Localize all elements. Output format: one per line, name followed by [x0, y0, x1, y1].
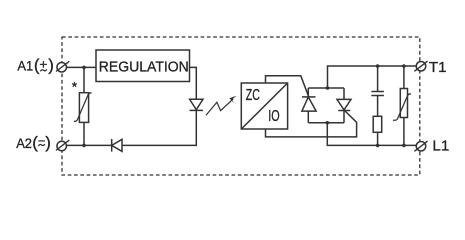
diode D1: [112, 139, 122, 152]
junction node top bus: [326, 86, 330, 90]
wire regulation to LED: [190, 67, 197, 99]
junction node varistor RV2 top: [402, 64, 406, 68]
tilde of A2: [38, 144, 45, 146]
svg-text:(: (: [32, 133, 38, 152]
optocoupler light arrow: [206, 96, 237, 115]
terminal T1: [414, 61, 427, 71]
capacitor C1: [371, 66, 384, 116]
junction node bottom bus: [326, 121, 330, 125]
wire thyristor bottom bus: [308, 122, 344, 124]
dashed enclosure: [62, 37, 420, 175]
ZC/IO block U2: [241, 83, 287, 129]
wire ZC top to thyristor Q1 gate: [266, 76, 309, 97]
resistor R1: [373, 116, 382, 145]
wire thyristor top bus: [308, 87, 344, 89]
terminal A1: [56, 61, 69, 72]
plus sign of A1: [40, 61, 47, 68]
wire junction to varistor RV1: [83, 67, 85, 92]
wire ZC bottom to thyristor Q2 gate: [266, 111, 357, 137]
junction node varistor RV2 bottom: [402, 144, 406, 148]
varistor RV1: [74, 93, 92, 123]
svg-text:L1: L1: [432, 137, 449, 154]
svg-text:REGULATION: REGULATION: [99, 59, 189, 76]
label A1(+~): [17, 56, 53, 75]
svg-text:A2: A2: [16, 135, 32, 151]
svg-text:*: *: [72, 78, 78, 94]
tilde of A1: [40, 69, 47, 71]
terminal A2: [56, 140, 69, 151]
svg-text:(: (: [34, 56, 40, 75]
wire A1 terminal to regulation box: [67, 66, 96, 68]
svg-text:): ): [45, 133, 51, 152]
junction node A1/varistor: [82, 66, 86, 70]
LED D2: [190, 99, 203, 110]
minus sign of A2: [38, 140, 45, 142]
svg-text:): ): [48, 56, 54, 75]
junction node capacitor top: [376, 64, 380, 68]
label A2(-~): [16, 133, 51, 152]
wire varistor RV1 to A2 rail: [83, 122, 85, 145]
junction node resistor bottom: [376, 144, 380, 148]
wire A2 terminal to diode D1: [67, 144, 112, 146]
svg-text:A1: A1: [17, 57, 33, 73]
svg-text:ZC: ZC: [246, 87, 260, 104]
svg-text:T1: T1: [429, 59, 447, 76]
terminal L1: [414, 141, 427, 151]
regulation box U1: [96, 50, 190, 82]
varistor RV2: [393, 66, 411, 145]
svg-text:IO: IO: [268, 108, 279, 125]
thyristor Q1: [302, 88, 316, 123]
wire top bus to T1 rail: [328, 66, 417, 88]
wire diode to LED cathode: [122, 110, 196, 145]
junction node varistor/A2 rail: [82, 144, 86, 148]
wire bottom bus to L1 rail: [327, 123, 416, 146]
thyristor Q2: [337, 88, 351, 123]
